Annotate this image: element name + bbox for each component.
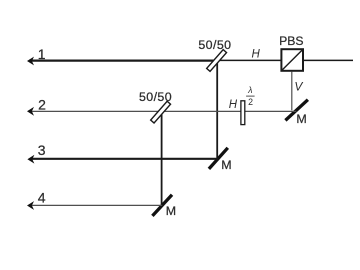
beam 3 wire (thick, y=158.8) (30, 158, 218, 160)
svg-text:V: V (294, 79, 303, 93)
beam 1 wire (thick output beam, y=60.6) (29, 59, 217, 61)
PBS cube U1 (281, 49, 303, 71)
wire vertical from BS2 down to mirror M4 (x=161.6) (161, 112, 163, 206)
svg-text:3: 3 (38, 142, 46, 158)
input wire from right into PBS and to BS1 (y=60.4) (217, 59, 353, 61)
svg-text:M: M (221, 158, 231, 172)
svg-text:50/50: 50/50 (198, 38, 231, 52)
svg-text:4: 4 (38, 189, 46, 205)
svg-text:H: H (252, 48, 261, 60)
svg-text:2: 2 (248, 97, 253, 107)
mirror M3 (reflects BS1 down-beam into beam 3) (209, 148, 228, 169)
arrowhead beam 3 (27, 155, 34, 164)
beam 2 wire (grey, y=111.1, from arrow to right mirror) (29, 110, 296, 112)
beam 4 wire (grey, y=205.3) (29, 204, 162, 206)
svg-text:λ: λ (247, 85, 252, 95)
half-wave plate λ/2 (241, 101, 245, 125)
arrowhead beam 1 (27, 57, 34, 66)
arrowhead beam 2 (27, 107, 34, 116)
wire vertical V path from PBS down to mirror (grey, x=291.8) (291, 72, 293, 111)
svg-text:M: M (296, 112, 306, 126)
wire vertical from BS1 down to mirror M3 (x=217.2) (216, 61, 218, 159)
arrowhead beam 4 (27, 201, 34, 210)
label λ/2 fraction (246, 85, 255, 107)
svg-text:1: 1 (38, 46, 46, 62)
svg-text:2: 2 (38, 97, 46, 113)
svg-text:PBS: PBS (279, 34, 303, 48)
svg-text:M: M (166, 204, 176, 218)
svg-text:H: H (229, 99, 238, 111)
beam splitter BS2 50/50 (hollow slash) (151, 101, 171, 123)
mirror M4 (reflects BS2 down-beam into beam 4) (152, 195, 172, 216)
beam splitter BS1 50/50 (hollow slash) (207, 50, 227, 72)
mirror M (right, reflects V path) (285, 100, 308, 121)
